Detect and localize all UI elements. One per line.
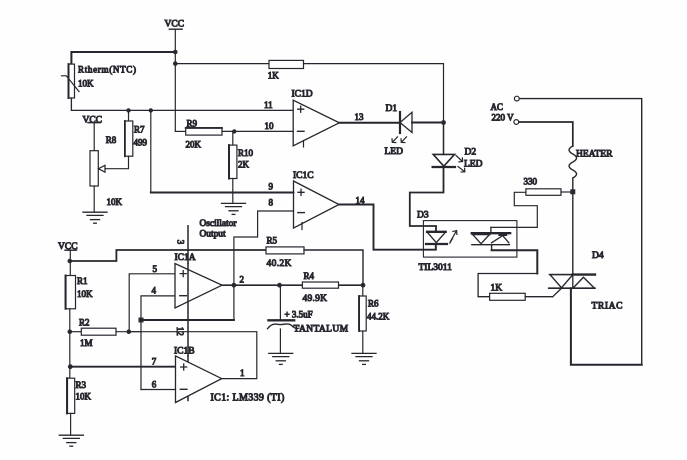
wire: R10 top lead	[232, 131, 234, 145]
svg-text:3: 3	[175, 240, 185, 245]
wire: R8 bottom to ground	[93, 186, 95, 212]
wire: pin 6 input	[141, 389, 176, 391]
svg-text:AC: AC	[491, 102, 504, 112]
resistor 330	[524, 176, 562, 195]
node: pin2/pin8 junction	[232, 283, 237, 288]
svg-text:1K: 1K	[491, 283, 503, 293]
triac D4	[549, 251, 623, 312]
svg-text:D2: D2	[465, 148, 477, 158]
svg-text:4: 4	[152, 286, 157, 296]
op-amp IC1A	[175, 253, 223, 308]
svg-text:VCC: VCC	[83, 115, 103, 125]
wire: D2 cathode down to optocoupler LED	[410, 167, 444, 232]
resistor R9 20K	[186, 118, 223, 149]
node: VCC rail branch	[68, 259, 73, 264]
svg-text:IC1B: IC1B	[174, 346, 195, 356]
svg-text:10K: 10K	[77, 289, 93, 299]
wire: R5 right to output node	[304, 250, 363, 285]
wire: IC1D output pin 13	[339, 122, 400, 124]
net label: Oscillator Output	[200, 219, 238, 240]
svg-text:IC1C: IC1C	[293, 171, 314, 181]
node: pin 7 junction	[68, 364, 73, 369]
svg-text:1M: 1M	[80, 338, 93, 348]
wire: R3 bottom to ground	[70, 413, 72, 435]
node: pin2/capacitor junction	[277, 283, 282, 288]
svg-text:LED: LED	[385, 147, 404, 157]
optocoupler D3 TIL3011	[417, 211, 517, 274]
svg-text:2: 2	[240, 275, 245, 285]
resistor 1K (gate)	[490, 283, 526, 300]
wire: down-left to gate resistor	[478, 274, 537, 297]
resistor 1K (pull-up)	[268, 60, 304, 80]
svg-text:10K: 10K	[78, 78, 94, 88]
VCC (lower-left) power symbol	[58, 242, 78, 252]
wire: optocoupler top-right pin to 330 resistor	[491, 192, 537, 227]
svg-text:7: 7	[152, 356, 157, 366]
svg-text:Output: Output	[200, 230, 226, 240]
wire: D1 to right node	[412, 122, 444, 124]
svg-text:11: 11	[264, 100, 273, 110]
svg-text:R8: R8	[106, 135, 117, 145]
svg-text:2K: 2K	[238, 160, 250, 170]
op-amp IC1C	[293, 171, 339, 230]
svg-text:44.2K: 44.2K	[367, 311, 390, 321]
svg-text:5: 5	[153, 264, 158, 274]
wire: VCC rail to R5 (thick)	[70, 250, 266, 261]
svg-text:499: 499	[134, 138, 148, 148]
resistor R10 2K	[229, 145, 254, 178]
wire: thick horizontal to oscillator node	[141, 319, 234, 321]
resistor R5 40.2K	[266, 236, 304, 270]
svg-text:20K: 20K	[186, 139, 202, 149]
ground (under R6)	[352, 353, 376, 364]
wire: R7 top lead	[128, 110, 130, 121]
wire: capacitor top lead	[279, 285, 281, 319]
svg-text:D4: D4	[592, 251, 604, 261]
node: VCC/thermistor junction	[173, 50, 178, 55]
wire: R1 bottom to R3 top rail	[69, 309, 71, 378]
resistor R7 499	[125, 121, 148, 156]
svg-text:220 V: 220 V	[492, 112, 515, 122]
node: R4/R5/R6 junction	[361, 283, 366, 288]
wire: IC1A output pin 2 (thick)	[222, 284, 363, 286]
VCC (top) power symbol	[165, 20, 185, 30]
svg-text:+ 3.5uF: + 3.5uF	[285, 309, 313, 319]
wire: pin 9 input (thick)	[151, 192, 294, 194]
svg-text:TIL3011: TIL3011	[419, 263, 453, 273]
node: heater/330/triac junction	[570, 189, 575, 194]
svg-text:1K: 1K	[268, 71, 280, 81]
op-amp IC1D	[292, 90, 340, 148]
svg-text:6: 6	[152, 379, 157, 389]
wire: junction down to triac top	[572, 193, 574, 275]
wire: optocoupler bottom-right pin (thick)	[492, 250, 538, 273]
svg-text:R5: R5	[267, 236, 278, 246]
svg-text:IC1: LM339 (TI): IC1: LM339 (TI)	[211, 393, 285, 404]
wire: triac bottom to AC return rail	[571, 288, 642, 365]
node: thermistor/R7 junction	[126, 108, 130, 112]
svg-text:LED: LED	[464, 160, 483, 170]
svg-text:VCC: VCC	[165, 20, 185, 30]
wire: 330 right lead to heater node	[561, 191, 571, 193]
svg-text:R9: R9	[187, 118, 198, 128]
AC 220V source terminals	[491, 96, 520, 124]
resistor R3 10K	[67, 378, 92, 413]
svg-text:R3: R3	[76, 380, 87, 390]
svg-text:8: 8	[269, 197, 274, 207]
resistor R2 1M	[70, 318, 141, 348]
wire: AC bottom terminal to heater	[519, 122, 573, 146]
node: D1/D2/1K junction	[441, 120, 446, 125]
wire: R9 left lead	[175, 130, 185, 132]
wire: R9 right lead / pin 10 input	[222, 130, 293, 132]
thermistor Rtherm(NTC) 10K	[62, 64, 137, 98]
wire: pin 7 input (thick)	[70, 366, 175, 368]
resistor R4 49.9K	[302, 271, 338, 304]
wire: pin 9 drop from thermistor node	[150, 110, 152, 192]
wire: 1K right lead to D1 node	[304, 64, 444, 123]
node: VCC/1K junction	[173, 61, 178, 66]
capacitor 3.5uF tantalum	[268, 309, 349, 334]
wire: VCC to R8 top	[93, 123, 95, 151]
svg-text:D1: D1	[386, 104, 398, 114]
svg-text:R6: R6	[368, 298, 379, 308]
wire: pin 8 input with jog down to oscillator node	[234, 211, 294, 320]
svg-text:IC1D: IC1D	[292, 90, 313, 100]
wire: R6 bottom to ground	[362, 331, 364, 353]
svg-text:Rtherm(NTC): Rtherm(NTC)	[78, 65, 137, 75]
diode D2 LED	[433, 148, 483, 173]
resistor R6 44.2K	[359, 296, 390, 331]
svg-text:49.9K: 49.9K	[303, 294, 328, 304]
wire: VCC stub down to R9 left lead	[174, 29, 176, 131]
wire: VCC lead down to R1	[69, 250, 71, 275]
svg-text:R4: R4	[304, 271, 315, 281]
svg-text:1: 1	[240, 368, 245, 378]
wire: thermistor bottom / pin 11 input	[71, 98, 293, 110]
svg-text:10K: 10K	[107, 197, 123, 207]
heater element	[569, 146, 613, 178]
wire: R10 bottom to ground	[232, 179, 234, 204]
svg-text:TRIAC: TRIAC	[592, 302, 624, 312]
svg-text:R10: R10	[238, 148, 254, 158]
wire: pin 4 / pin 6 vertical	[141, 296, 175, 390]
svg-text:D3: D3	[417, 211, 429, 221]
svg-text:9: 9	[269, 182, 274, 192]
svg-text:IC1A: IC1A	[175, 253, 196, 263]
wire: R6 top lead	[362, 285, 364, 296]
svg-text:14: 14	[356, 195, 366, 205]
wire: IC1C output pin 14 down to optocoupler	[339, 205, 436, 250]
svg-text:R1: R1	[77, 276, 88, 286]
svg-text:10K: 10K	[76, 392, 92, 402]
wire: node down to D2	[443, 123, 445, 155]
wire: triac gate diagonal	[553, 288, 563, 297]
diode D1 LED	[385, 104, 413, 157]
svg-text:Oscillator: Oscillator	[200, 219, 238, 229]
ground (under R3)	[59, 435, 83, 446]
wire: power vertical through IC1B	[187, 356, 189, 401]
wire: 1K resistor left lead	[175, 63, 269, 65]
node: thermistor/pin9 junction	[149, 108, 153, 112]
svg-text:R7: R7	[134, 124, 145, 134]
svg-text:10: 10	[265, 121, 275, 131]
node: R2/pin5 junction	[127, 329, 132, 334]
wire: thermistor top to VCC junction	[71, 52, 175, 64]
wire: LM339 power vertical through IC1A	[187, 264, 189, 356]
ground (under R10)	[222, 203, 246, 214]
wire: IC1B output pin 1 feedback loop	[129, 332, 257, 379]
op-amp IC1B	[174, 346, 222, 402]
VCC (left) power symbol	[83, 115, 103, 125]
node: R2 left junction	[68, 329, 73, 334]
svg-text:330: 330	[524, 176, 538, 186]
wire: 1K to triac gate	[525, 296, 553, 298]
resistor R1 10K	[65, 276, 93, 309]
ground (under capacitor)	[269, 353, 293, 364]
potentiometer R8 10K	[90, 135, 129, 207]
svg-text:13: 13	[355, 112, 365, 122]
svg-text:HEATER: HEATER	[576, 149, 613, 159]
wire: AC top terminal to right rail	[520, 99, 642, 365]
node: R9/R10 junction	[232, 129, 236, 133]
pin 3 power stub with label	[187, 226, 189, 264]
node: square junction on thick wire	[139, 318, 144, 323]
wire: heater bottom to junction	[572, 178, 574, 190]
wire: pin 5 branch	[129, 274, 175, 332]
svg-text:40.2K: 40.2K	[267, 259, 292, 269]
ground (under R8)	[83, 212, 107, 223]
wire: triac internal vertical	[572, 275, 574, 289]
wire: capacitor bottom to ground	[279, 329, 281, 353]
svg-text:TANTALUM: TANTALUM	[294, 324, 349, 334]
svg-text:R2: R2	[79, 318, 90, 328]
